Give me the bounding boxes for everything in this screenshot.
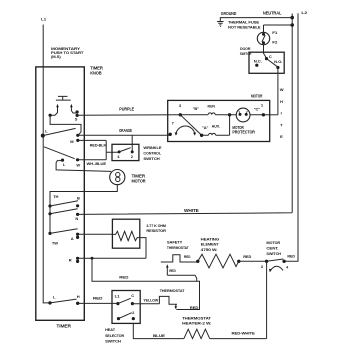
terminal C bbox=[265, 57, 268, 60]
wire L2 rail bbox=[284, 13, 298, 261]
thermostat heater element bbox=[184, 329, 210, 338]
svg-text:TH: TH bbox=[53, 194, 58, 199]
svg-text:B: B bbox=[77, 195, 80, 200]
terminal R pair bbox=[76, 257, 79, 260]
start switch arc bbox=[176, 126, 195, 135]
svg-text:(M-S): (M-S) bbox=[51, 54, 61, 59]
timer arm TH-B bbox=[50, 201, 78, 206]
svg-text:RED: RED bbox=[119, 275, 128, 280]
svg-text:SELECTOR: SELECTOR bbox=[105, 333, 124, 338]
wire wh.-blue bbox=[78, 159, 107, 161]
svg-text:RUN: RUN bbox=[208, 104, 215, 109]
svg-text:N.O.: N.O. bbox=[274, 59, 282, 64]
wrinkle switch arm bbox=[119, 148, 131, 152]
wire red to heat selector bbox=[78, 302, 118, 304]
wire red-blk bbox=[78, 140, 119, 159]
svg-text:E: E bbox=[280, 134, 283, 139]
svg-text:HEATER-2 W.: HEATER-2 W. bbox=[182, 321, 211, 326]
svg-text:"C": "C" bbox=[254, 106, 260, 111]
svg-text:PURPLE: PURPLE bbox=[119, 107, 134, 112]
svg-text:S: S bbox=[75, 117, 78, 122]
svg-text:HEAT: HEAT bbox=[105, 327, 116, 332]
wrinkle control switch box bbox=[112, 144, 139, 160]
svg-text:"B": "B" bbox=[193, 106, 199, 111]
contact L row2 bbox=[61, 159, 64, 162]
wire red to cent switch bbox=[239, 260, 267, 262]
svg-text:WH.-BLUE: WH.-BLUE bbox=[87, 161, 107, 166]
terminal 7 bbox=[169, 133, 172, 136]
svg-text:RED-WHITE: RED-WHITE bbox=[232, 330, 256, 335]
svg-text:RED: RED bbox=[287, 254, 295, 259]
svg-text:SWITCH: SWITCH bbox=[143, 156, 160, 161]
svg-text:RED: RED bbox=[184, 254, 191, 259]
white vertical label bbox=[280, 87, 284, 139]
heat selector switch box bbox=[112, 291, 140, 324]
timer lower arm bbox=[44, 147, 75, 159]
wire fuse top bbox=[264, 25, 293, 32]
wire A to resistor bbox=[78, 233, 113, 235]
svg-text:KNOB: KNOB bbox=[90, 70, 101, 75]
svg-text:GROUND: GROUND bbox=[221, 11, 237, 16]
contact TH left pair bbox=[48, 204, 51, 207]
svg-text:H: H bbox=[77, 294, 80, 299]
node winding junction bbox=[228, 113, 231, 116]
svg-text:RED: RED bbox=[93, 296, 103, 301]
terminal N.O. bbox=[276, 66, 279, 69]
terminal C bbox=[131, 302, 134, 305]
svg-text:RED-BLK: RED-BLK bbox=[90, 142, 106, 147]
wire PS left contact to M bbox=[50, 116, 81, 135]
wire red drop loop bbox=[92, 258, 200, 309]
node R tap bbox=[91, 257, 94, 260]
svg-text:ORANGE: ORANGE bbox=[119, 128, 132, 133]
svg-text:C: C bbox=[131, 293, 134, 298]
door switch box bbox=[249, 52, 284, 73]
svg-text:RED: RED bbox=[190, 305, 199, 310]
contact S pair bbox=[76, 110, 79, 113]
timer switch arm L to M bbox=[43, 128, 76, 135]
svg-text:W: W bbox=[280, 87, 284, 92]
svg-text:PROTECTOR: PROTECTOR bbox=[232, 130, 255, 135]
svg-text:AUX.: AUX. bbox=[212, 124, 221, 129]
wire yellow bbox=[132, 303, 159, 305]
svg-text:NOT RESETABLE: NOT RESETABLE bbox=[228, 24, 261, 29]
wire ground/neutral top bbox=[220, 17, 292, 19]
wire motor C out bbox=[263, 114, 278, 116]
svg-text:SWITCH: SWITCH bbox=[105, 338, 121, 343]
lower contacts bbox=[117, 317, 120, 320]
terminal L1 bbox=[116, 302, 119, 305]
terminal 1 "C" bbox=[262, 113, 265, 116]
svg-text:WRINKLE: WRINKLE bbox=[143, 145, 161, 150]
contact PS left bbox=[49, 114, 52, 117]
svg-text:C: C bbox=[269, 54, 272, 59]
timer bottom contacts L/H bbox=[48, 301, 51, 304]
svg-text:RESISTOR: RESISTOR bbox=[146, 228, 166, 233]
svg-text:"A": "A" bbox=[202, 125, 208, 130]
wire wrinkle tap bbox=[131, 135, 133, 152]
terminal A pair bbox=[76, 233, 79, 236]
resistor box bbox=[112, 219, 139, 248]
svg-text:W: W bbox=[76, 162, 80, 167]
svg-text:I: I bbox=[281, 111, 282, 116]
node neutral junction dots bbox=[290, 16, 294, 20]
wire R run bbox=[78, 257, 146, 259]
svg-text:THERMOSTAT: THERMOSTAT bbox=[160, 288, 185, 293]
svg-text:TW: TW bbox=[52, 240, 58, 245]
node L pivot bbox=[41, 134, 45, 138]
svg-text:RED: RED bbox=[169, 268, 176, 273]
svg-text:MOTOR: MOTOR bbox=[251, 93, 262, 98]
terminal N.C. bbox=[255, 64, 258, 67]
terminal 3 bbox=[179, 113, 182, 116]
terminal A bbox=[200, 134, 203, 137]
svg-text:CONTROL: CONTROL bbox=[143, 150, 161, 155]
wire door N.O. to motor bbox=[277, 68, 279, 115]
wire timer motor return bbox=[50, 185, 117, 234]
wire orange bbox=[78, 134, 170, 136]
svg-text:SWITCH: SWITCH bbox=[266, 251, 281, 256]
svg-text:ELEMENT: ELEMENT bbox=[201, 242, 220, 247]
svg-text:4750 W.: 4750 W. bbox=[201, 247, 218, 252]
aux winding bbox=[202, 115, 230, 136]
contact W row2 bbox=[76, 158, 79, 161]
svg-text:WHITE: WHITE bbox=[184, 208, 199, 213]
svg-text:BLUE: BLUE bbox=[153, 333, 165, 338]
push-to-start button bbox=[50, 96, 77, 115]
motor start switch arm 3-A bbox=[180, 115, 201, 135]
wire blue bottom run bbox=[133, 323, 266, 338]
svg-text:MOTOR: MOTOR bbox=[132, 178, 146, 183]
svg-text:THERMOSTAT: THERMOSTAT bbox=[167, 245, 189, 250]
svg-text:H: H bbox=[280, 99, 283, 104]
wire resistor to R line bbox=[140, 238, 146, 259]
ground symbol bbox=[217, 18, 224, 27]
svg-text:N.C.: N.C. bbox=[254, 59, 262, 64]
svg-text:A: A bbox=[71, 236, 74, 241]
svg-text:SAFETY: SAFETY bbox=[167, 240, 183, 245]
contact M pair bbox=[76, 134, 79, 137]
motor protector bbox=[230, 108, 264, 122]
svg-text:NEUTRAL: NEUTRAL bbox=[263, 11, 282, 16]
door switch arm bbox=[267, 59, 278, 67]
terminal N bbox=[76, 213, 79, 216]
svg-text:RED: RED bbox=[243, 254, 251, 259]
svg-text:TIMER: TIMER bbox=[56, 324, 71, 329]
svg-text:SWITCH: SWITCH bbox=[240, 51, 252, 56]
timer motor M1 bbox=[110, 170, 125, 185]
wire red-white drop bbox=[266, 261, 268, 338]
svg-text:N: N bbox=[75, 216, 78, 221]
wire fuse to door switch bbox=[264, 45, 267, 58]
timer arm TH-N bbox=[50, 209, 78, 214]
resistor 3.77k element bbox=[112, 231, 139, 240]
wire white neutral run bbox=[78, 14, 293, 215]
wire L contact to timer motor bbox=[56, 161, 111, 172]
wire purple run bbox=[77, 114, 180, 116]
heat selector arm L1-C bbox=[118, 298, 131, 303]
wire L1 feed down into timer bbox=[43, 25, 50, 303]
thermal fuse F1/F2 bbox=[257, 32, 269, 44]
svg-text:CENT.: CENT. bbox=[266, 245, 278, 250]
wire safety stat heater branch bbox=[167, 275, 196, 281]
timer arm TW-A bbox=[50, 229, 78, 234]
svg-text:YELLOW: YELLOW bbox=[143, 298, 158, 303]
svg-text:R: R bbox=[69, 258, 72, 263]
terminal 2 bbox=[131, 150, 134, 153]
terminal B bbox=[76, 204, 79, 207]
motor box bbox=[168, 100, 270, 141]
terminal 4 bbox=[118, 150, 121, 153]
timer box bbox=[36, 67, 85, 320]
